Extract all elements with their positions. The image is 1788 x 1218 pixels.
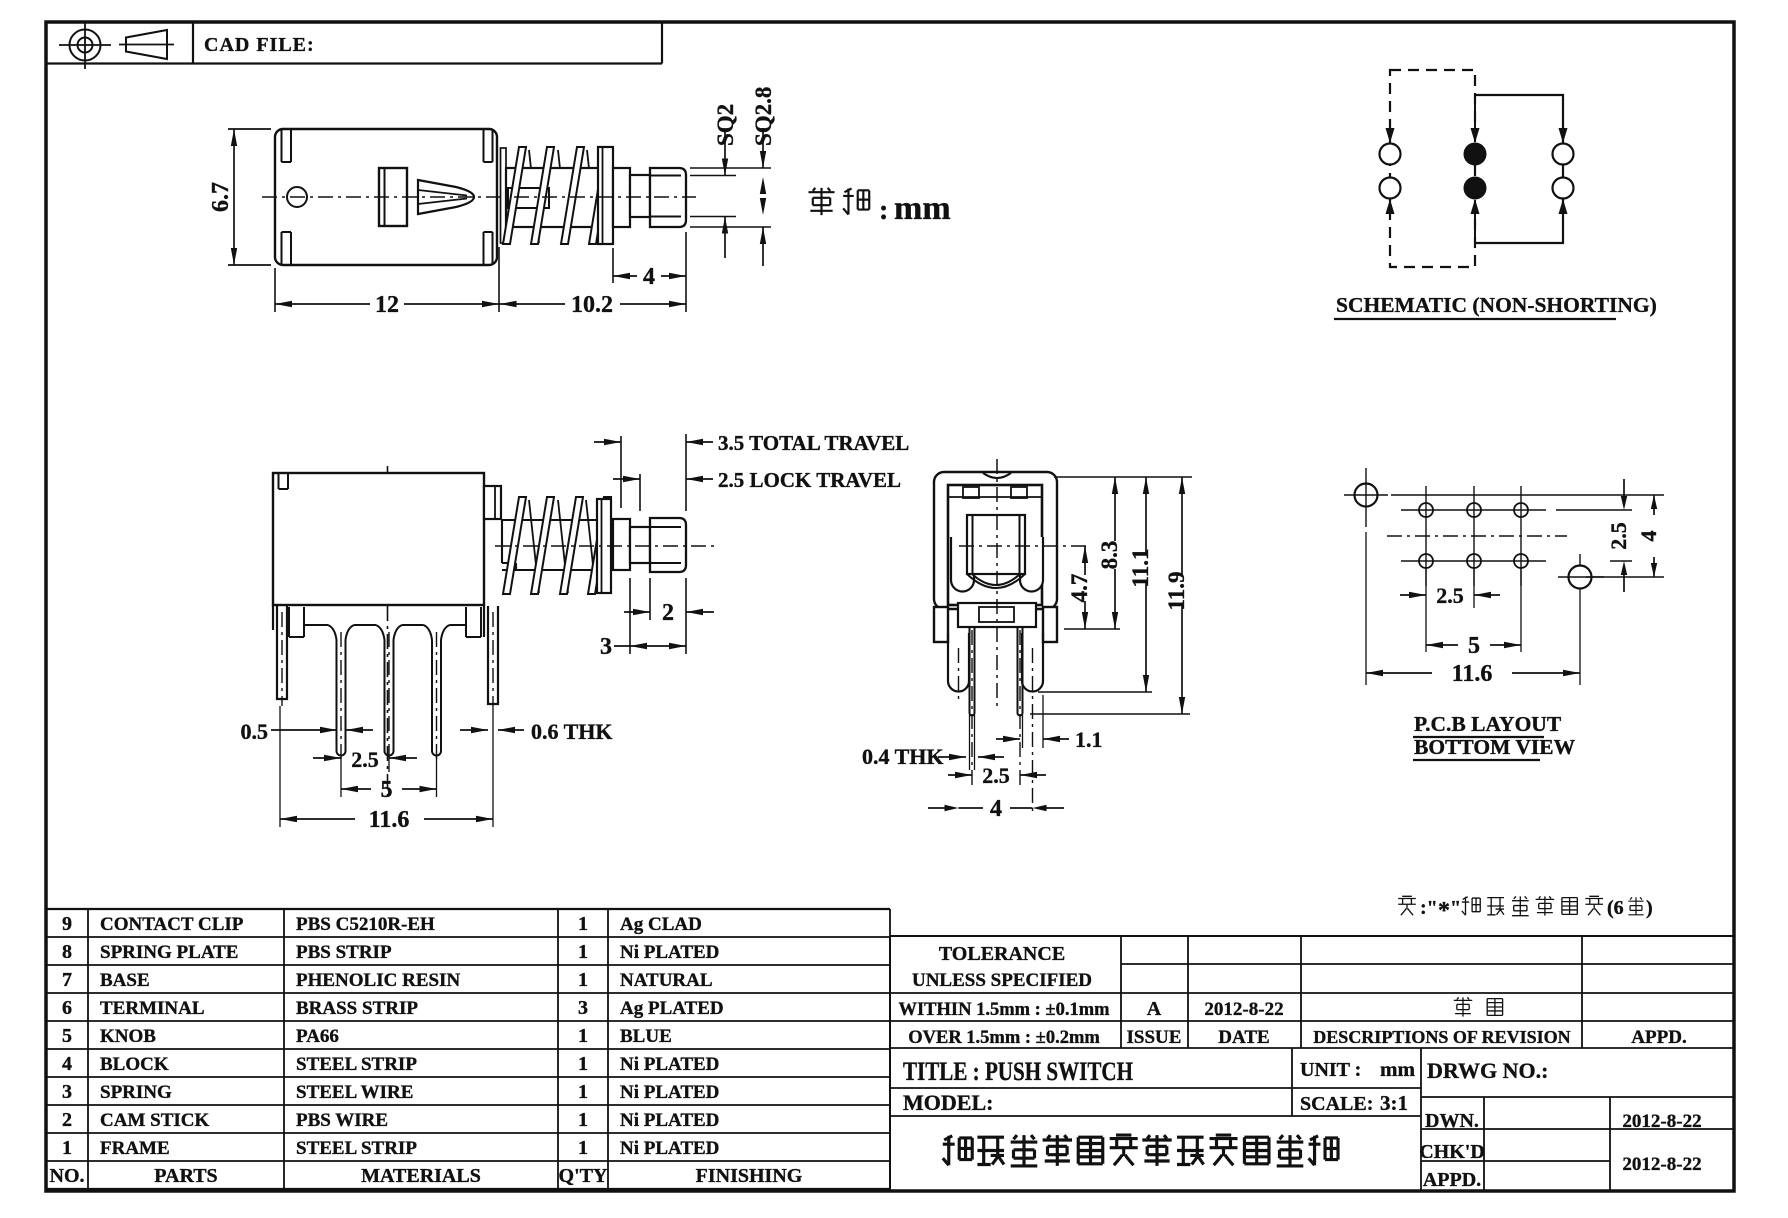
svg-text:9: 9 — [62, 913, 72, 935]
svg-text:DESCRIPTIONS OF REVISION: DESCRIPTIONS OF REVISION — [1313, 1027, 1570, 1047]
svg-text:7: 7 — [62, 969, 72, 991]
svg-text:11.9: 11.9 — [1164, 572, 1189, 611]
svg-text:11.6: 11.6 — [369, 807, 410, 833]
svg-text:Ni PLATED: Ni PLATED — [620, 1082, 719, 1103]
svg-text:8.3: 8.3 — [1097, 541, 1122, 570]
svg-text:STEEL STRIP: STEEL STRIP — [296, 1138, 417, 1159]
svg-text:1: 1 — [578, 1025, 588, 1047]
svg-text:Ag PLATED: Ag PLATED — [620, 998, 724, 1019]
svg-text:3:1: 3:1 — [1380, 1091, 1408, 1115]
svg-text:): ) — [1646, 897, 1653, 919]
svg-text:5: 5 — [62, 1025, 72, 1047]
svg-text:ISSUE: ISSUE — [1127, 1027, 1182, 1048]
svg-text:1: 1 — [62, 1137, 72, 1159]
svg-text:3: 3 — [578, 997, 588, 1019]
svg-text:0.4 THK: 0.4 THK — [862, 744, 944, 769]
svg-text:Ni PLATED: Ni PLATED — [620, 942, 719, 963]
svg-text:2.5: 2.5 — [1436, 583, 1464, 608]
svg-text:8: 8 — [62, 941, 72, 963]
svg-text:PBS WIRE: PBS WIRE — [296, 1110, 388, 1131]
svg-text:6.7: 6.7 — [208, 182, 234, 212]
svg-text:NO.: NO. — [50, 1165, 85, 1187]
svg-text:2.5: 2.5 — [1606, 522, 1631, 550]
svg-text:SQ2.8: SQ2.8 — [751, 87, 776, 146]
svg-text:2.5 LOCK TRAVEL: 2.5 LOCK TRAVEL — [718, 468, 901, 492]
svg-text:PA66: PA66 — [296, 1026, 339, 1047]
svg-text:OVER 1.5mm : ±0.2mm: OVER 1.5mm : ±0.2mm — [908, 1028, 1100, 1048]
svg-text:Ni PLATED: Ni PLATED — [620, 1110, 719, 1131]
svg-text:APPD.: APPD. — [1631, 1027, 1686, 1048]
svg-text:BOTTOM VIEW: BOTTOM VIEW — [1414, 735, 1576, 759]
svg-text:PBS STRIP: PBS STRIP — [296, 942, 392, 963]
svg-text:BASE: BASE — [100, 970, 150, 991]
svg-text:": " — [1450, 897, 1461, 919]
svg-text:PBS C5210R-EH: PBS C5210R-EH — [296, 914, 435, 935]
svg-text:PARTS: PARTS — [154, 1165, 217, 1187]
svg-text:MATERIALS: MATERIALS — [361, 1165, 481, 1187]
svg-text:6: 6 — [62, 997, 72, 1019]
svg-text:1: 1 — [578, 1137, 588, 1159]
svg-text:BLUE: BLUE — [620, 1026, 672, 1047]
svg-text:TERMINAL: TERMINAL — [100, 998, 205, 1019]
svg-text:KNOB: KNOB — [100, 1026, 156, 1047]
svg-text:SCHEMATIC (NON-SHORTING): SCHEMATIC (NON-SHORTING) — [1336, 293, 1657, 317]
svg-text:TOLERANCE: TOLERANCE — [939, 943, 1065, 965]
svg-text::": :" — [1420, 897, 1438, 919]
svg-text:1: 1 — [578, 1053, 588, 1075]
svg-text:1: 1 — [578, 1081, 588, 1103]
svg-text:Ag CLAD: Ag CLAD — [620, 914, 702, 935]
svg-text:1: 1 — [578, 1109, 588, 1131]
svg-text:BRASS STRIP: BRASS STRIP — [296, 998, 418, 1019]
svg-text:CHK'D: CHK'D — [1419, 1141, 1485, 1163]
svg-text:3.5 TOTAL TRAVEL: 3.5 TOTAL TRAVEL — [718, 431, 909, 455]
svg-text:4: 4 — [643, 264, 655, 290]
svg-text:A: A — [1147, 998, 1162, 1020]
svg-text:UNIT :: UNIT : — [1300, 1059, 1361, 1081]
svg-text:2012-8-22: 2012-8-22 — [1622, 1111, 1701, 1132]
svg-text:(6: (6 — [1607, 897, 1624, 919]
svg-text:11.1: 11.1 — [1128, 549, 1153, 588]
svg-text:CONTACT CLIP: CONTACT CLIP — [100, 914, 244, 935]
svg-text:4: 4 — [990, 796, 1002, 822]
svg-text:4: 4 — [62, 1053, 72, 1075]
svg-text:10.2: 10.2 — [571, 292, 613, 318]
svg-text:CAD FILE:: CAD FILE: — [204, 34, 315, 56]
svg-text:1: 1 — [578, 969, 588, 991]
svg-text:STEEL WIRE: STEEL WIRE — [296, 1082, 413, 1103]
svg-text:3: 3 — [600, 634, 612, 660]
svg-text:5: 5 — [1468, 633, 1480, 659]
svg-text:WITHIN 1.5mm : ±0.1mm: WITHIN 1.5mm : ±0.1mm — [898, 1000, 1110, 1020]
svg-text:MODEL:: MODEL: — [903, 1090, 993, 1115]
svg-text:TITLE : PUSH SWITCH: TITLE : PUSH SWITCH — [903, 1057, 1133, 1086]
svg-text:1: 1 — [578, 941, 588, 963]
svg-text:Q'TY: Q'TY — [559, 1165, 608, 1187]
svg-text:PHENOLIC RESIN: PHENOLIC RESIN — [296, 970, 460, 991]
svg-text:1: 1 — [578, 913, 588, 935]
svg-text:DRWG NO.:: DRWG NO.: — [1427, 1058, 1548, 1083]
svg-text:2.5: 2.5 — [982, 763, 1010, 788]
svg-text:STEEL STRIP: STEEL STRIP — [296, 1054, 417, 1075]
svg-text:NATURAL: NATURAL — [620, 970, 713, 991]
svg-text:1.1: 1.1 — [1075, 727, 1103, 752]
svg-text:CAM STICK: CAM STICK — [100, 1110, 209, 1131]
svg-text:0.6 THK: 0.6 THK — [531, 719, 613, 744]
svg-text:SCALE:: SCALE: — [1300, 1093, 1373, 1115]
svg-text:mm: mm — [1380, 1057, 1415, 1081]
svg-text:3: 3 — [62, 1081, 72, 1103]
svg-text:5: 5 — [381, 777, 393, 803]
svg-text:2: 2 — [62, 1109, 72, 1131]
svg-text:FRAME: FRAME — [100, 1138, 170, 1159]
svg-text:0.5: 0.5 — [241, 719, 269, 744]
svg-text:SPRING: SPRING — [100, 1082, 172, 1103]
svg-text:SPRING PLATE: SPRING PLATE — [100, 942, 238, 963]
svg-text:*: * — [1438, 898, 1450, 924]
svg-text:FINISHING: FINISHING — [696, 1165, 803, 1187]
svg-text:BLOCK: BLOCK — [100, 1054, 169, 1075]
svg-text:4: 4 — [1636, 531, 1661, 542]
svg-text:mm: mm — [894, 190, 951, 227]
svg-text:Ni PLATED: Ni PLATED — [620, 1054, 719, 1075]
svg-text:2012-8-22: 2012-8-22 — [1622, 1154, 1701, 1175]
svg-text:4.7: 4.7 — [1067, 574, 1092, 603]
svg-text:DWN.: DWN. — [1425, 1110, 1479, 1132]
svg-text:Ni PLATED: Ni PLATED — [620, 1138, 719, 1159]
svg-text:2.5: 2.5 — [351, 747, 379, 772]
svg-text:DATE: DATE — [1218, 1027, 1269, 1048]
svg-text:2: 2 — [662, 600, 674, 626]
svg-text:P.C.B LAYOUT: P.C.B LAYOUT — [1414, 712, 1562, 736]
svg-text:11.6: 11.6 — [1452, 661, 1493, 687]
svg-text:SQ2: SQ2 — [713, 104, 738, 146]
svg-text::: : — [879, 195, 888, 226]
svg-text:UNLESS SPECIFIED: UNLESS SPECIFIED — [912, 970, 1092, 991]
svg-text:APPD.: APPD. — [1423, 1169, 1481, 1191]
svg-text:12: 12 — [375, 292, 399, 318]
svg-text:2012-8-22: 2012-8-22 — [1204, 999, 1283, 1020]
